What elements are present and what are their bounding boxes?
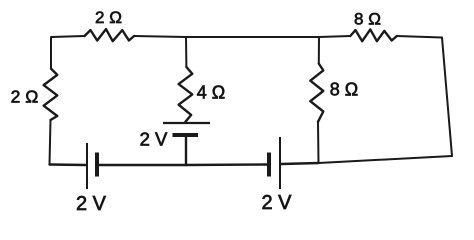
wire right branch top: [318, 37, 320, 64]
resistor R2 2ohm left: [44, 69, 58, 120]
wire top-left to R1: [51, 36, 85, 38]
wire R1 to node B: [134, 36, 350, 37]
svg-text:2 V: 2 V: [261, 192, 292, 214]
wire R4 to top-right corner: [397, 36, 442, 38]
wire right side: [442, 38, 452, 157]
svg-text:2 V: 2 V: [76, 193, 107, 215]
battery B3 thin plate: [279, 137, 281, 189]
wire left side bottom: [50, 120, 51, 165]
wire node D to battery B3: [282, 163, 319, 164]
wire bottom-right to node D: [319, 156, 453, 163]
resistor R1 2ohm top: [85, 29, 135, 41]
resistor R3 4ohm middle: [179, 67, 193, 122]
battery B3 thick plate: [267, 153, 271, 177]
svg-text:2 Ω: 2 Ω: [11, 87, 39, 107]
battery B2 thick plate: [173, 133, 199, 137]
wire middle branch top: [185, 37, 187, 67]
svg-text:8 Ω: 8 Ω: [330, 80, 358, 100]
resistor R5 8ohm right: [310, 64, 323, 122]
battery B2 thin plate: [163, 122, 210, 124]
wire right branch bottom: [317, 122, 320, 163]
battery B1 thin plate: [86, 143, 88, 189]
wire B1 to bottom-left corner: [50, 163, 86, 166]
wire B2 to node E: [185, 137, 187, 166]
wire left side top: [50, 38, 52, 69]
svg-text:2 Ω: 2 Ω: [95, 8, 122, 27]
wire B3 to node E: [186, 163, 268, 166]
battery B1 thick plate: [95, 153, 99, 177]
wire node E to battery B1: [99, 164, 187, 166]
svg-text:2 V: 2 V: [140, 129, 168, 150]
svg-text:8 Ω: 8 Ω: [354, 10, 381, 29]
resistor R4 8ohm top: [350, 29, 397, 41]
svg-text:4 Ω: 4 Ω: [197, 83, 225, 103]
